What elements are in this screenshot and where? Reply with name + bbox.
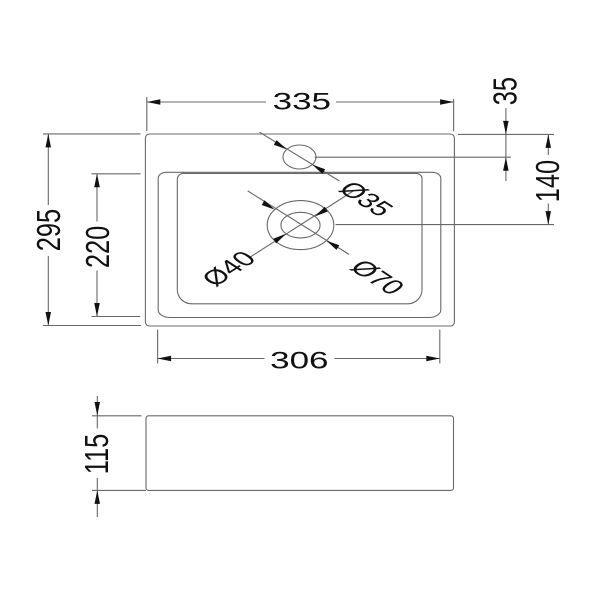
svg-text:335: 335 — [273, 89, 331, 116]
svg-text:Ø70: Ø70 — [344, 255, 412, 299]
svg-text:140: 140 — [530, 160, 567, 202]
svg-text:115: 115 — [79, 434, 116, 474]
svg-text:295: 295 — [31, 209, 68, 251]
svg-text:Ø40: Ø40 — [195, 247, 263, 291]
svg-text:Ø35: Ø35 — [332, 177, 400, 221]
svg-text:306: 306 — [270, 347, 328, 374]
svg-text:220: 220 — [80, 226, 117, 268]
svg-text:35: 35 — [487, 77, 524, 105]
